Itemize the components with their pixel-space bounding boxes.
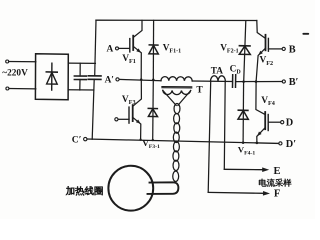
wire top rail <box>96 19 257 21</box>
capacitor C2 (on bus) <box>88 76 101 80</box>
junction VF4-1 on bottom rail <box>242 141 245 144</box>
arrow F (current sample lead) <box>208 191 263 194</box>
junction VF3-1 on rail <box>152 139 154 141</box>
svg-text:B′: B′ <box>289 77 299 88</box>
wire TA secondary leg left <box>208 81 211 192</box>
svg-text:CD: CD <box>230 65 242 76</box>
wire A' line <box>119 79 161 80</box>
rectifier bridge box <box>35 54 68 100</box>
wire AC top lead <box>9 61 36 63</box>
junction diode column on B' <box>242 80 245 83</box>
wire bottom rail C'-D' <box>87 139 279 143</box>
svg-text:TA: TA <box>211 66 224 76</box>
AC input terminal top <box>6 60 9 63</box>
transformer T secondary winding <box>163 90 191 94</box>
svg-text:A: A <box>107 44 114 54</box>
twisted pair to heating coil <box>173 103 180 181</box>
diode VF3-1 (freewheel) <box>148 80 157 140</box>
svg-text:VF1-1: VF1-1 <box>163 44 181 55</box>
node B terminal <box>282 47 285 50</box>
wire DC+ <box>68 62 95 64</box>
wire secondary leads V <box>163 90 176 105</box>
gate terminal of VF3 <box>115 118 118 121</box>
svg-text:VF2: VF2 <box>260 56 274 67</box>
node A' terminal <box>116 78 119 81</box>
diode VF2-1 (freewheel) <box>239 21 250 82</box>
transformer T primary winding <box>161 77 192 81</box>
heating coil circle <box>108 166 153 211</box>
svg-text:VF3: VF3 <box>122 95 136 106</box>
wire A'-B' middle <box>192 80 232 83</box>
svg-text:A′: A′ <box>105 75 114 85</box>
node C' terminal <box>84 137 87 140</box>
transistor VF1 (IGBT) <box>130 20 142 79</box>
label current sampling (Chinese) <box>259 179 291 187</box>
svg-text:~220V: ~220V <box>2 69 28 79</box>
svg-text:VF2-1: VF2-1 <box>220 44 238 55</box>
svg-text:VF3-1: VF3-1 <box>142 138 160 150</box>
junction VF2 emitter on B' <box>255 80 258 83</box>
junction VF3 emitter on rail <box>139 139 141 141</box>
capacitor C1 (filter) <box>74 63 86 90</box>
label heating coil (Chinese) <box>66 186 103 195</box>
svg-text:T: T <box>196 84 203 95</box>
wire gate A <box>119 47 130 49</box>
svg-text:VF1: VF1 <box>122 54 136 65</box>
node B' terminal <box>282 80 285 83</box>
wire CD to B' <box>236 81 282 83</box>
svg-text:E: E <box>274 166 281 177</box>
wire DC- <box>68 89 94 91</box>
arrow E (current sample lead) <box>224 168 262 170</box>
diode VF4-1 (freewheel) <box>238 82 248 143</box>
wire gate VF3 <box>118 118 129 120</box>
svg-text:B: B <box>289 44 296 55</box>
svg-text:D′: D′ <box>286 139 296 150</box>
transformer core <box>162 86 192 88</box>
polarity dash mark <box>302 33 309 35</box>
transistor VF4 (IGBT) <box>256 82 281 143</box>
node A terminal <box>116 47 119 50</box>
current transformer TA primary bumps <box>211 76 226 82</box>
heating coil tab <box>148 182 179 194</box>
node D terminal <box>281 121 284 124</box>
AC input terminal bottom <box>6 87 9 90</box>
junction VF1-1 on A' <box>152 78 155 81</box>
svg-text:D: D <box>286 118 293 129</box>
transistor VF3 (IGBT) <box>129 80 141 140</box>
svg-text:C′: C′ <box>72 134 82 145</box>
junction VF1 emitter on A' <box>140 78 143 81</box>
capacitor CD plates <box>232 75 234 88</box>
wire DC bus vertical upper <box>95 20 96 76</box>
svg-text:F: F <box>274 189 280 200</box>
node D' terminal <box>279 142 282 145</box>
junction VF4 emitter on bottom rail <box>256 142 259 145</box>
wire AC bottom lead <box>9 88 36 90</box>
wire TA secondary leg right <box>223 82 226 170</box>
svg-text:VF4-1: VF4-1 <box>238 144 256 156</box>
rectifier diode symbol <box>46 63 57 90</box>
wire DC bus vertical lower <box>92 79 94 139</box>
transistor VF2 (IGBT) <box>256 21 282 82</box>
diode VF1-1 (freewheel) <box>149 20 158 79</box>
svg-text:VF4: VF4 <box>261 96 275 107</box>
